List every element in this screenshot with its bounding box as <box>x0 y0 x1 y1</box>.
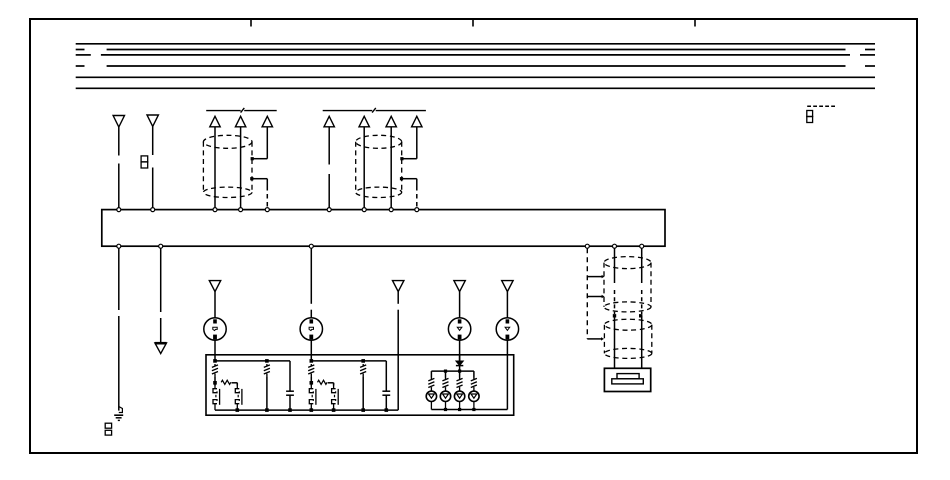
wire shield tap 3 <box>587 338 601 340</box>
terminal triangle A3 <box>262 116 272 127</box>
pin (bus bar top, x=215) <box>213 208 217 212</box>
solenoid coil A (shield outline) <box>203 135 252 197</box>
switch contact R21 <box>309 383 313 393</box>
wire L4 into unit <box>506 340 508 409</box>
wire <box>385 395 387 410</box>
connector terminal triangle T2 <box>147 115 158 126</box>
wire bus bar to lamp L2 <box>310 248 312 318</box>
indicator lamp D3 <box>440 391 450 401</box>
resistor R2c (series to contact 2) <box>318 380 328 384</box>
junction <box>458 370 461 373</box>
wire <box>459 389 461 392</box>
connector terminal triangle T6 <box>454 281 465 292</box>
pin (bus bar bottom, x=641.7) <box>640 244 644 248</box>
resistor R1a <box>212 364 218 377</box>
pin (bus bar top, x=152.7) <box>151 208 155 212</box>
connector terminal triangle T4 <box>209 281 220 292</box>
wire indicator top rail <box>431 371 474 377</box>
wire T1 to bus bar <box>118 127 120 208</box>
pin (bus bar bottom, x=311.3) <box>309 244 313 248</box>
junction R2 switch node <box>310 381 314 385</box>
bulb socket L3 <box>448 318 470 340</box>
gauge control unit box U1 <box>206 355 514 415</box>
wire bus bar to terminal T3 <box>160 248 162 343</box>
junction shield tap 1 <box>602 275 605 278</box>
pin (bus bar top, x=416.8) <box>415 208 419 212</box>
pin (bus bar bottom, x=587.3) <box>585 244 589 248</box>
pin (bus bar bottom, x=614.5) <box>613 244 617 248</box>
bracket over terminals (group A) <box>206 108 277 113</box>
indicator lamp D2 <box>426 391 436 401</box>
junction coil A tap 1 <box>251 157 254 160</box>
wire shield tap 2 <box>587 296 602 298</box>
shielded cable section 1 (outline) <box>604 257 651 312</box>
ground G1 <box>114 407 123 421</box>
junction R2 divider <box>361 359 365 363</box>
terminal triangle B2 <box>359 116 369 127</box>
wire <box>445 389 447 392</box>
pin (bus bar top, x=240.6) <box>239 208 243 212</box>
wire bus line 1 <box>76 43 875 45</box>
junction coil B tap 1 <box>400 157 403 160</box>
junction common rail / R2 feed <box>310 408 314 412</box>
wire T5 to circuit common rail <box>397 292 399 411</box>
pin (bus bar bottom, x=160.7) <box>159 244 163 248</box>
junction shield tap 3 <box>601 337 604 340</box>
junction common rail / C1 <box>288 408 292 412</box>
wire <box>430 389 432 392</box>
wire coil A tap 2 to bus bar <box>252 179 267 208</box>
connector (near ground, two cavities) <box>105 423 111 435</box>
wire T6 to lamp L3 <box>459 292 461 318</box>
junction R1 switch node <box>213 381 217 385</box>
wire capacitor leg <box>289 361 291 391</box>
shielded cable section 2 (outline) <box>604 319 651 358</box>
wire <box>289 395 291 410</box>
junction R1 divider <box>265 359 269 363</box>
wire B1 <box>328 127 330 208</box>
junction <box>444 408 447 411</box>
terminal triangle A1 <box>210 116 220 127</box>
wire R1 top rail <box>215 360 290 362</box>
connector (inline, two cavities) <box>141 156 148 168</box>
wire capacitor leg <box>385 361 387 391</box>
indicator lamp D5 <box>469 391 479 401</box>
solenoid coil B (shield outline) <box>356 135 402 197</box>
junction common rail / R2b <box>361 408 365 412</box>
pin (bus bar top, x=267.3) <box>265 208 269 212</box>
wire signal lead 1 <box>614 248 616 368</box>
junction R2 feed <box>310 359 314 363</box>
connector terminal triangle T5 <box>393 281 404 292</box>
wire coil B tap 2 to bus bar <box>402 179 417 208</box>
wire bus line 4 <box>76 65 875 67</box>
wire bus bar to ground G1 <box>118 248 120 410</box>
wire T7 to lamp L4 <box>506 292 508 318</box>
wire L3 into unit <box>459 340 461 361</box>
pin (bus bar top, x=364.2) <box>362 208 366 212</box>
junction <box>613 314 616 317</box>
junction bus bar (main connector block) <box>102 210 665 247</box>
junction R1 feed <box>213 359 217 363</box>
wire B3 <box>390 127 392 208</box>
resistor RL1 <box>428 378 434 389</box>
wire L1 into unit <box>214 340 216 361</box>
wire L2 into unit <box>310 340 312 361</box>
resistor RL3 <box>457 378 463 389</box>
wire shield tap 1 <box>587 276 602 278</box>
pin (bus bar bottom, x=118.8) <box>117 244 121 248</box>
bulb socket L1 <box>204 318 226 340</box>
capacitor R2 <box>382 391 390 395</box>
wire A2 <box>240 127 242 208</box>
wire common rail <box>215 409 398 411</box>
wire dashed lead (top right) <box>807 105 836 107</box>
junction common rail / C2 <box>385 408 389 412</box>
switch contact R11 <box>213 383 217 393</box>
capacitor R1 <box>286 391 294 395</box>
junction <box>444 370 447 373</box>
terminal triangle B4 <box>412 116 422 127</box>
junction <box>472 408 475 411</box>
wire T4 to lamp L1 <box>214 292 216 318</box>
wire R2 top rail <box>311 360 386 362</box>
pin (bus bar top, x=329.2) <box>327 208 331 212</box>
pin (bus bar top, x=118.8) <box>117 208 121 212</box>
wire <box>473 389 475 392</box>
wire B2 <box>363 127 365 208</box>
sensor unit S1 (pickup) <box>604 368 650 391</box>
junction shield tap 2 <box>602 295 605 298</box>
wire shield drain (dashed) from bus bar <box>586 248 588 339</box>
wire <box>214 377 216 386</box>
junction coil A tap 2 <box>250 177 253 180</box>
wire bus line 5 <box>76 76 875 78</box>
terminal triangle B1 <box>324 116 334 127</box>
switch contact R12 <box>235 383 239 393</box>
wire <box>328 383 334 386</box>
terminal triangle B3 <box>386 116 396 127</box>
wire indicator bottom rail <box>431 409 507 411</box>
junction common rail / contact R1-2 <box>236 408 240 412</box>
switch contact R22 <box>332 383 336 393</box>
bulb socket L4 <box>496 318 518 340</box>
junction common rail / contact R2-2 <box>332 408 336 412</box>
wire R1b to common <box>266 377 268 410</box>
wire T2 to bus bar <box>152 126 154 207</box>
wire B4 to coil tap <box>402 127 417 159</box>
resistor RL4 <box>471 378 477 389</box>
connector terminal triangle T1 <box>113 116 124 128</box>
wire signal lead 2 <box>641 248 643 368</box>
junction common rail / R1b <box>265 408 269 412</box>
junction coil B tap 2 <box>400 177 403 180</box>
wire bus line 2 <box>76 49 875 51</box>
indicator lamp D4 <box>454 391 464 401</box>
wire A3 to coil tap <box>253 127 268 159</box>
diode D1 <box>456 355 463 371</box>
wire <box>310 377 312 386</box>
connector terminal triangle T3 (down) <box>155 343 167 354</box>
connector (top right, two cavities) <box>807 111 813 123</box>
terminal triangle A2 <box>235 116 245 127</box>
resistor R2a <box>308 364 314 377</box>
resistor RL2 <box>442 378 448 389</box>
connector terminal triangle T7 <box>502 281 513 292</box>
bulb socket L2 <box>300 318 322 340</box>
bracket over terminals (group B) <box>323 108 426 113</box>
wire bus line 6 <box>76 87 875 89</box>
wire A1 <box>214 127 216 208</box>
wire <box>232 383 238 386</box>
resistor R1c (series to contact 2) <box>221 380 231 384</box>
resistor R1b <box>264 364 270 377</box>
resistor R2b <box>360 364 366 377</box>
junction <box>458 408 461 411</box>
pin (bus bar top, x=391.2) <box>389 208 393 212</box>
junction <box>639 314 642 317</box>
wire R2b to common <box>362 377 364 410</box>
wire bus line 3 <box>76 54 875 56</box>
